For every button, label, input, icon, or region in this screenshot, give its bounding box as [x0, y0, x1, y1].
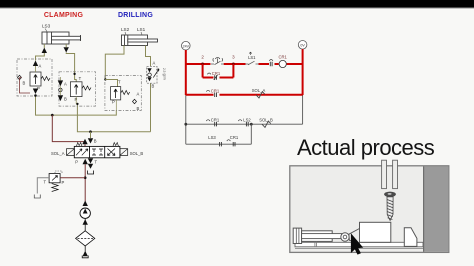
- svg-text:LS3: LS3: [208, 135, 216, 140]
- rung2 red: [186, 94, 303, 96]
- clamp rod: [302, 234, 342, 239]
- svg-text:B: B: [23, 81, 26, 86]
- valve block1 counterbalance: [17, 59, 52, 96]
- 24V source circle: [182, 41, 191, 50]
- svg-text:LS1: LS1: [137, 27, 146, 32]
- svg-text:CR1: CR1: [211, 118, 220, 123]
- DCV right box arrows: [108, 149, 116, 156]
- DCV port B arrow: [88, 138, 93, 143]
- machine frame: [290, 166, 449, 253]
- node 2: [201, 63, 204, 66]
- svg-text:A: A: [153, 61, 156, 66]
- solenoid SOL_B box: [120, 149, 128, 156]
- arrow below pump: [83, 219, 88, 225]
- rung2 contact CR1: [206, 90, 210, 91]
- svg-text:A: A: [64, 82, 67, 87]
- right rail black lower: [302, 95, 304, 124]
- svg-text:LS2: LS2: [243, 118, 251, 123]
- DCV spring left: [77, 143, 82, 147]
- svg-text:SOL_B: SOL_B: [259, 118, 273, 123]
- left rail red: [185, 50, 187, 95]
- svg-text:CR1: CR1: [279, 54, 288, 59]
- svg-text:A: A: [39, 64, 42, 69]
- svg-text:P: P: [112, 100, 115, 105]
- svg-text:LS2: LS2: [121, 27, 130, 32]
- svg-text:LS1: LS1: [248, 55, 256, 60]
- bus line olive lower: [77, 104, 150, 132]
- drill bit: [387, 197, 393, 221]
- coil CR1: [279, 60, 286, 67]
- DCV port A arrow: [82, 139, 87, 145]
- spindle rod right: [393, 160, 398, 188]
- gray pillar: [423, 166, 448, 251]
- contact CR1-1: [269, 60, 273, 61]
- clamp cylinder barrel: [302, 231, 333, 242]
- seal branch verticals: [203, 64, 234, 78]
- node 3: [232, 63, 235, 66]
- seal contact CR1: [207, 73, 211, 74]
- svg-text:B: B: [94, 139, 97, 144]
- svg-text:CLAMPING: CLAMPING: [44, 12, 84, 19]
- svg-text:gpm: gpm: [163, 74, 167, 81]
- pump: [80, 208, 90, 218]
- relief valve RV: [49, 174, 60, 183]
- DCV left box arrows: [76, 149, 88, 156]
- DCV centre box closed: [92, 149, 103, 155]
- pushbutton PB: [211, 61, 224, 64]
- chuck: [384, 192, 396, 197]
- svg-text:B: B: [137, 106, 140, 111]
- wire drill right port through flow valve: [146, 46, 151, 67]
- svg-text:CR1: CR1: [230, 135, 239, 140]
- svg-text:CR1: CR1: [211, 88, 220, 93]
- top letterbox bar: [0, 0, 474, 7]
- svg-text:B: B: [64, 97, 67, 102]
- seal branch rung: [203, 77, 234, 79]
- tank relief: [34, 195, 40, 199]
- svg-text:P: P: [75, 160, 78, 165]
- svg-text:T: T: [95, 160, 98, 165]
- svg-text:24V: 24V: [183, 44, 190, 48]
- barrel legs: [315, 241, 317, 246]
- mouse cursor: [351, 233, 363, 254]
- rung3 contact LS2: [238, 120, 242, 121]
- svg-text:T: T: [118, 80, 121, 85]
- svg-text:DRILLING: DRILLING: [118, 12, 153, 19]
- svg-text:T: T: [79, 76, 82, 81]
- left rail black lower: [185, 95, 187, 144]
- right rail red: [302, 49, 304, 95]
- maroon wire A-side to DCV: [52, 115, 85, 142]
- svg-text:CR1: CR1: [212, 71, 221, 76]
- bus line olive upper: [36, 96, 117, 116]
- wire clamp left port to block1: [36, 53, 45, 61]
- rung1 red segments: [186, 63, 303, 65]
- arrow below filter: [83, 251, 88, 256]
- DCV spring right: [113, 143, 118, 147]
- clamp cylinder cap: [293, 228, 301, 243]
- svg-text:A: A: [137, 92, 140, 97]
- tank under DCV T: [88, 171, 94, 175]
- filter: [76, 231, 95, 246]
- cylinder drilling: [122, 35, 158, 46]
- svg-text:SOL_A: SOL_A: [51, 151, 65, 156]
- rod joint circle: [341, 233, 349, 241]
- tank bottom: [82, 255, 88, 257]
- spindle rod left: [382, 160, 387, 188]
- svg-text:P: P: [62, 180, 65, 185]
- main pressure line maroon: [84, 164, 86, 201]
- rung3: [186, 123, 303, 125]
- rung3 contact CR1: [206, 120, 210, 121]
- svg-text:T: T: [43, 180, 46, 185]
- pusher link: [349, 229, 360, 244]
- base slab: [295, 242, 423, 247]
- solenoid SOL_A box: [67, 149, 75, 156]
- svg-text:LS3: LS3: [42, 24, 51, 29]
- cylinder clamping: [42, 32, 81, 44]
- 0V source circle: [298, 41, 307, 50]
- wire drill left port to block3: [105, 46, 124, 80]
- svg-text:0V: 0V: [300, 43, 305, 47]
- svg-text:SOL_B: SOL_B: [130, 151, 144, 156]
- clamping port arrows: [42, 48, 47, 54]
- svg-text:Actual process: Actual process: [297, 135, 435, 160]
- relief T line: [37, 178, 49, 194]
- rung4 branch: [186, 124, 252, 144]
- valve block2 sequence: [59, 72, 96, 106]
- svg-text:2.5: 2.5: [162, 68, 166, 73]
- relief P line: [60, 177, 85, 179]
- svg-text:B: B: [152, 84, 155, 89]
- workpiece: [360, 222, 391, 242]
- wire clamp right port to block2 T: [66, 53, 76, 82]
- DCV 4/3 valve body: [74, 146, 120, 157]
- rung4 contact CR1: [227, 140, 231, 141]
- valve block3 sequence: [105, 76, 141, 111]
- fixture vblock: [404, 228, 417, 247]
- arrow above pump: [83, 201, 88, 207]
